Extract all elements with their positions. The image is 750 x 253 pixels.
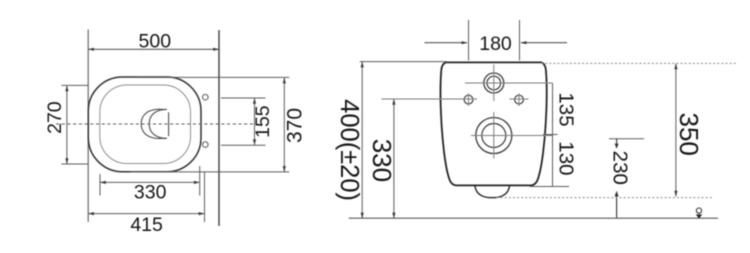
- dim 370 extension top: [138, 76, 289, 78]
- svg-text:350: 350: [674, 113, 704, 156]
- svg-text:180: 180: [479, 33, 512, 55]
- flush outlet inner arc: [149, 109, 167, 138]
- dim line 500: [89, 48, 219, 50]
- dim 230 up arrow: [615, 191, 619, 197]
- dim 180 arrow left: [425, 42, 468, 44]
- dim 370 extension bottom: [130, 171, 289, 173]
- hinge hole top: [203, 94, 209, 100]
- dim 270 extension top: [62, 84, 89, 86]
- drain bulge: [475, 185, 510, 197]
- dim line 350: [675, 64, 677, 196]
- dashed line top (rim level): [541, 62, 736, 64]
- dim 330 extension right: [199, 166, 201, 196]
- fixing hole right: [515, 95, 524, 104]
- body outline: [440, 62, 546, 185]
- dim 180 extension left: [468, 20, 470, 61]
- center dashed line: [56, 123, 256, 125]
- svg-text:330: 330: [367, 139, 397, 182]
- inlet crosshair horizontal: [465, 82, 553, 84]
- dim line 370: [283, 78, 285, 172]
- svg-text:330: 330: [134, 181, 167, 203]
- svg-text:370: 370: [283, 108, 306, 143]
- dim 400 extension top: [360, 61, 447, 63]
- dim 155 extension top: [221, 97, 266, 99]
- dim 180 extension right: [519, 20, 521, 61]
- hinge hole bottom: [203, 142, 209, 148]
- svg-text:500: 500: [139, 31, 172, 53]
- drain hole outer: [476, 118, 512, 154]
- fixing hole left: [464, 95, 473, 104]
- svg-text:230: 230: [609, 151, 632, 185]
- svg-text:135: 135: [555, 92, 578, 126]
- inlet hole outer: [484, 73, 504, 93]
- floor line: [349, 217, 718, 219]
- dim 330 extension left: [99, 174, 101, 196]
- dim line 330: [100, 181, 199, 183]
- dim 230 down arrow: [616, 139, 618, 145]
- flush outlet vertical tick: [168, 112, 170, 136]
- seat inner rim: [100, 85, 191, 164]
- dim line 270: [66, 86, 68, 164]
- fixing hole left ticks: [382, 98, 478, 100]
- wall line: [218, 30, 220, 226]
- dim 180 arrow right: [521, 42, 567, 44]
- svg-text:130: 130: [555, 141, 578, 175]
- svg-text:155: 155: [252, 105, 274, 138]
- flush outlet outer arc: [141, 109, 160, 138]
- drain crosshair horizontal: [471, 135, 553, 137]
- inlet hole inner: [487, 76, 501, 90]
- svg-text:270: 270: [44, 101, 66, 134]
- svg-text:415: 415: [130, 214, 163, 236]
- dim 415 extension right: [204, 172, 206, 222]
- inlet crosshair vertical: [493, 65, 495, 102]
- svg-text:400(±20): 400(±20): [335, 99, 363, 201]
- dim line 415: [89, 213, 205, 215]
- dim 135/130 line: [552, 83, 554, 187]
- dim line 155: [254, 98, 256, 144]
- floor datum symbol: [696, 208, 701, 213]
- dim line 330 right view: [393, 99, 395, 218]
- bowl outer rim: [88, 77, 201, 172]
- fixing hole right ticks: [510, 98, 529, 100]
- dim 270 extension bottom: [62, 163, 89, 165]
- dim 135/130 bottom extension: [530, 186, 570, 188]
- dim 230 top tick: [609, 138, 644, 140]
- drain hole inner: [482, 124, 506, 148]
- drain crosshair vertical: [493, 112, 495, 159]
- dim 135/130 mid tick: [543, 134, 558, 136]
- flush outlet connectors: [160, 109, 168, 138]
- dashed line bottom (outlet level): [497, 197, 714, 199]
- extension line left (front of bowl): [87, 30, 89, 223]
- dim line 400: [361, 62, 363, 218]
- dim 155 extension bottom: [221, 144, 266, 146]
